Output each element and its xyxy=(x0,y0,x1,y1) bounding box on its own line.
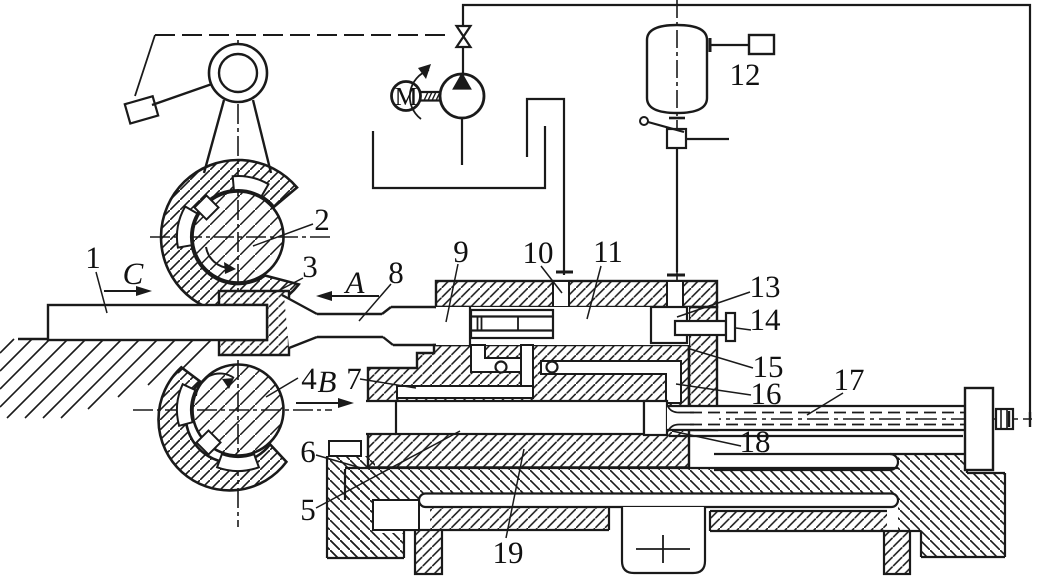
svg-text:7: 7 xyxy=(346,361,362,396)
svg-text:M: M xyxy=(394,82,417,111)
svg-text:10: 10 xyxy=(523,235,554,270)
svg-text:4: 4 xyxy=(301,361,317,396)
svg-text:C: C xyxy=(123,256,144,291)
svg-text:12: 12 xyxy=(730,57,761,92)
svg-text:13: 13 xyxy=(750,269,781,304)
svg-text:14: 14 xyxy=(750,302,782,337)
svg-text:9: 9 xyxy=(453,234,469,269)
svg-text:17: 17 xyxy=(834,362,865,397)
svg-text:A: A xyxy=(344,265,366,300)
svg-text:8: 8 xyxy=(388,255,404,290)
svg-text:18: 18 xyxy=(740,424,771,459)
svg-text:2: 2 xyxy=(314,202,330,237)
svg-text:19: 19 xyxy=(493,535,524,570)
svg-text:3: 3 xyxy=(302,249,318,284)
svg-text:B: B xyxy=(318,364,337,399)
svg-text:11: 11 xyxy=(593,234,623,269)
svg-text:16: 16 xyxy=(751,376,782,411)
svg-text:5: 5 xyxy=(300,492,316,527)
svg-text:1: 1 xyxy=(85,240,101,275)
svg-text:6: 6 xyxy=(300,434,316,469)
